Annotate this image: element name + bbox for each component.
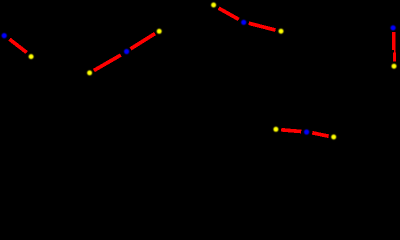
node B-mid (blue dot) bbox=[124, 49, 129, 54]
node E-mid (blue dot) bbox=[304, 129, 309, 134]
wire C2 (red segment, chain C right) bbox=[249, 23, 276, 30]
node C-end (yellow dot) bbox=[279, 29, 284, 34]
wire E1 (red segment, chain E left) bbox=[281, 130, 301, 132]
wire D2 (red vertical segment, chain D lower) bbox=[393, 53, 396, 62]
node B-end (yellow dot) bbox=[157, 29, 162, 34]
wire D1-D2 junction (thin bridge) bbox=[394, 50, 396, 52]
node D-start (blue dot) bbox=[391, 25, 396, 30]
node C-start (yellow dot) bbox=[211, 3, 216, 8]
wire C1 (red segment, chain C left) bbox=[219, 8, 239, 19]
wire B1 (red segment, chain B lower) bbox=[94, 55, 121, 71]
node A-start (blue dot) bbox=[2, 33, 7, 38]
wire E2 (red segment, chain E right) bbox=[312, 133, 328, 136]
wire D1 (red vertical segment, chain D upper) bbox=[392, 32, 395, 50]
node D-end (yellow dot) bbox=[392, 64, 397, 69]
node A-end (yellow dot) bbox=[29, 54, 34, 59]
wire B2 (red segment, chain B upper) bbox=[131, 34, 155, 49]
node C-mid (blue dot) bbox=[241, 20, 246, 25]
node E-end (yellow dot) bbox=[331, 135, 336, 140]
node B-start (yellow dot) bbox=[87, 70, 92, 75]
wire A1 (red segment, chain A) bbox=[10, 39, 27, 52]
node E-start (yellow dot) bbox=[273, 127, 278, 132]
